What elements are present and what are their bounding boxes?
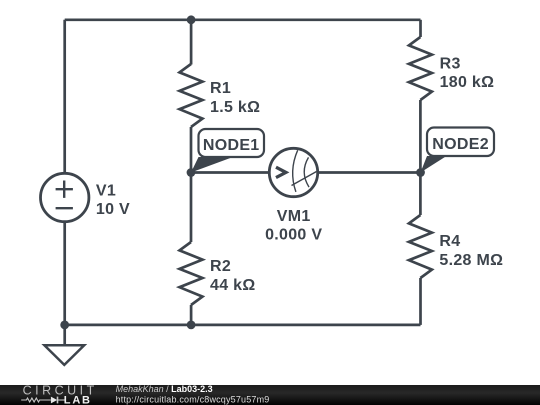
wire: left rail top (top rail to V1) (63, 20, 66, 174)
junction: ground rail / R2 branch (187, 321, 196, 330)
svg-text:http://circuitlab.com/c8wcqy57: http://circuitlab.com/c8wcqy57u57m9 (116, 394, 270, 404)
svg-text:R1: R1 (210, 80, 231, 97)
voltmeter VM1 (269, 148, 317, 196)
svg-text:1.5 kΩ: 1.5 kΩ (210, 99, 260, 116)
resistor R3 (409, 37, 432, 100)
svg-text:10 V: 10 V (96, 201, 130, 218)
footer bar (0, 385, 540, 405)
label R1 1.5 kOhm (210, 80, 260, 116)
wire: left rail bottom (V1 to ground rail) (63, 222, 66, 325)
svg-text:LAB: LAB (64, 395, 92, 405)
svg-text:V1: V1 (96, 182, 116, 199)
svg-text:44 kΩ: 44 kΩ (210, 277, 255, 294)
voltage source V1 (40, 173, 88, 221)
wire: voltmeter to NODE2 (318, 171, 420, 174)
wire: ground stub (63, 325, 66, 345)
wire: ground rail (bottom) (65, 324, 421, 327)
wire: R1 to NODE1 to R2 (190, 127, 193, 242)
wire: top rail (65, 18, 421, 21)
svg-text:MehakKhan / Lab03-2.3: MehakKhan / Lab03-2.3 (116, 384, 213, 394)
resistor R1 (180, 64, 203, 127)
wire: R4 bottom lead (419, 278, 422, 325)
svg-text:R4: R4 (439, 233, 460, 250)
label R4 5.28 MOhm (439, 233, 503, 269)
svg-text:NODE1: NODE1 (203, 137, 260, 154)
junction: ground rail / V1 branch (60, 321, 69, 330)
svg-text:VM1: VM1 (277, 208, 311, 225)
wire: right rail top (top rail to R3) (419, 20, 422, 37)
wire: R2 bottom lead (190, 305, 193, 325)
svg-text:180 kΩ: 180 kΩ (440, 74, 495, 91)
node NODE1 junction dot (187, 168, 196, 177)
node label NODE2 (421, 128, 495, 173)
wire: NODE1 to voltmeter (191, 171, 269, 174)
svg-text:NODE2: NODE2 (432, 136, 489, 153)
svg-text:R3: R3 (440, 55, 461, 72)
CircuitLab logo: resistor-diode glyph (21, 397, 64, 404)
label R2 44 kOhm (210, 258, 255, 294)
wire: R1 top lead (190, 20, 193, 65)
label VM1 0.000 V (265, 208, 322, 244)
resistor R4 (409, 215, 432, 278)
wire: R3 to NODE2 to R4 (419, 100, 422, 215)
svg-text:5.28 MΩ: 5.28 MΩ (439, 252, 503, 269)
ground (44, 345, 84, 365)
label V1 10 V (96, 182, 130, 218)
junction: top rail / R1 branch (187, 15, 196, 24)
resistor R2 (180, 242, 203, 305)
label R3 180 kOhm (440, 55, 495, 91)
node NODE2 junction dot (416, 168, 425, 177)
svg-text:R2: R2 (210, 258, 231, 275)
node label NODE1 (191, 129, 264, 173)
svg-text:0.000 V: 0.000 V (265, 227, 322, 244)
